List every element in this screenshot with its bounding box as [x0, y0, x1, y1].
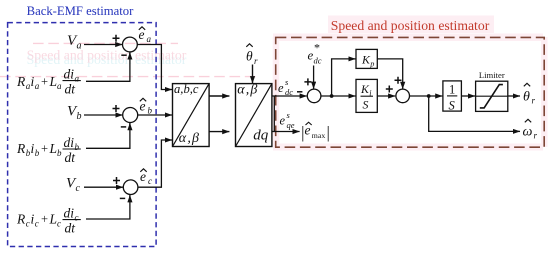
Speed and position estimator dashed box [276, 37, 545, 147]
svg-text:c: c [76, 183, 81, 194]
plus sign summer B [113, 105, 120, 112]
svg-text:dt: dt [65, 82, 77, 97]
svg-text:dq: dq [253, 128, 269, 144]
wire Vb to summer B [84, 114, 123, 116]
plus sign summer E left [386, 86, 393, 93]
OUT [410, 70, 538, 141]
svg-text:b: b [75, 142, 80, 152]
svg-text:θ: θ [246, 49, 253, 64]
PLL [272, 41, 410, 142]
Kp block [356, 49, 377, 68]
svg-text:dc: dc [314, 56, 322, 66]
svg-text:ω: ω [523, 125, 533, 140]
wire up to Kp [332, 59, 350, 96]
svg-text:r: r [532, 96, 536, 106]
svg-text:L: L [49, 74, 58, 89]
svg-text:R: R [16, 212, 26, 227]
arrow e_c into abc block [166, 139, 172, 141]
svg-text:Speed and position estimator: Speed and position estimator [27, 48, 187, 63]
svg-text:L: L [49, 141, 58, 156]
wire Kp to summer E [377, 59, 402, 84]
alpha-beta to dq transform block [236, 84, 272, 147]
wire e_dc from dq block to summer D [272, 95, 307, 97]
svg-text:dt: dt [65, 150, 77, 165]
wire Vc to summer C [84, 186, 123, 188]
svg-text:Limiter: Limiter [479, 70, 505, 80]
dq block diagonal [236, 84, 272, 147]
Kp label [361, 52, 374, 68]
pink halo right edge of red box [541, 37, 548, 147]
ghost pink dashed line lower [0, 76, 258, 78]
ghost pink dashed line upper [33, 42, 178, 44]
svg-text:a: a [147, 34, 152, 44]
Back-EMF estimator dashed box [8, 23, 157, 247]
wire summer D to Ki/S [321, 95, 356, 97]
svg-text:α,β: α,β [179, 131, 200, 146]
wire alpha component [209, 95, 229, 97]
integrator fraction bar [447, 95, 457, 97]
ROWB [16, 98, 172, 165]
svg-text:+: + [41, 141, 48, 155]
plus sign summer E top [395, 77, 402, 84]
Ki/S block [356, 79, 377, 112]
svg-text:c: c [26, 219, 30, 229]
limiter block [476, 81, 508, 111]
svg-text:di: di [64, 66, 75, 81]
svg-text:+: + [41, 212, 48, 226]
label e_b hat [140, 99, 153, 116]
BLOCKS [173, 44, 272, 147]
hat over e_a [139, 27, 145, 30]
label e_dc-star reference [308, 41, 322, 66]
label theta_r hat output [523, 90, 536, 106]
abc to alpha-beta transform block [173, 84, 210, 147]
Ki/S fraction bar [361, 95, 374, 97]
label Vc [66, 176, 81, 195]
label Rc*ic + Lc*dic/dt [16, 205, 79, 235]
arrow Kp into summer E [402, 84, 404, 89]
svg-text:θ: θ [523, 90, 530, 105]
wire integrator to limiter [461, 95, 475, 97]
summing junction E [396, 89, 410, 103]
minus sign summer C [120, 197, 125, 199]
svg-text:+: + [41, 74, 48, 88]
summing junction B [123, 108, 138, 123]
GHOSTS [0, 16, 548, 151]
svg-text:e: e [278, 81, 284, 95]
svg-text:S: S [449, 99, 456, 113]
plus sign summer D top [304, 78, 311, 85]
arrow into Kp [350, 58, 356, 60]
label Va [67, 33, 82, 52]
svg-text:r: r [534, 131, 538, 141]
svg-text:b: b [148, 106, 153, 116]
wire Va to summer A [84, 44, 122, 46]
label Rb*ib + Lb*dib/dt [16, 135, 80, 165]
integrator block 1/S [443, 81, 462, 111]
vertical tie line at dq outputs [273, 96, 275, 132]
wire e_qe to emax [272, 131, 300, 133]
feedback arrow into summer C [129, 195, 131, 200]
minus sign summer B [121, 126, 126, 128]
junction dot after summer D [330, 94, 334, 98]
label theta_r hat above dq block [246, 49, 258, 67]
svg-text:S: S [363, 97, 369, 111]
hat over omega output [525, 119, 531, 122]
label e_c hat [140, 169, 152, 186]
arrow e_a into abc block [166, 89, 172, 91]
svg-text:e: e [280, 114, 286, 128]
wire summer E to integrator [410, 95, 443, 97]
svg-text:b: b [35, 148, 40, 158]
label omega_r hat output [523, 125, 538, 141]
svg-text:a: a [77, 40, 82, 51]
feedback arrow into summer B [129, 123, 131, 128]
svg-text:c: c [57, 219, 61, 229]
label e_dc^s [278, 77, 293, 97]
feedback arrow into summer A [129, 53, 131, 59]
svg-text:a: a [57, 81, 62, 91]
svg-text:b: b [77, 111, 82, 122]
svg-text:R: R [16, 141, 26, 156]
svg-text:Speed and position estimator: Speed and position estimator [331, 18, 490, 33]
integrator label [449, 83, 456, 113]
feedback wire C [86, 195, 130, 219]
feedback wire A [86, 53, 130, 82]
summing junction C [123, 180, 138, 195]
wire limiter to theta output [508, 95, 520, 97]
svg-text:Back-EMF estimator: Back-EMF estimator [27, 4, 135, 18]
svg-text:qe: qe [287, 120, 295, 130]
svg-text:a,b,c: a,b,c [174, 82, 199, 96]
abc block diagonal [173, 84, 210, 147]
wire e_dc-star into summer D [313, 66, 315, 89]
hat over theta output [524, 83, 530, 86]
hat over e_c [140, 169, 146, 172]
svg-text:*: * [314, 41, 320, 55]
label e_qe^s [280, 110, 295, 130]
hat over theta_r [246, 44, 252, 47]
limiter axis line [476, 95, 508, 97]
wire e_c to abc block [138, 140, 166, 187]
hat over e_b [140, 98, 146, 101]
fraction bar dib/dt [63, 148, 81, 150]
summing junction D [307, 89, 321, 103]
svg-text:dc: dc [285, 87, 293, 97]
svg-text:a: a [35, 81, 40, 91]
svg-text:r: r [254, 56, 258, 66]
pink halo behind red title [328, 16, 494, 34]
arrow omega output [514, 130, 520, 132]
minus sign summer D [297, 91, 302, 93]
pink halo bottom edge of red box [273, 144, 543, 151]
svg-text:c: c [75, 212, 79, 222]
ROWC [16, 140, 172, 236]
svg-text:L: L [49, 212, 58, 227]
wire omega output [429, 96, 514, 131]
label Ra*ia + La*dia/dt [16, 66, 80, 96]
summing junction A [122, 37, 137, 52]
ROWA [16, 27, 172, 97]
junction dot omega [427, 94, 431, 98]
label |e_max| [300, 123, 330, 142]
wire Ki/S to summer E [377, 95, 395, 97]
fraction bar dic/dt [63, 219, 81, 221]
plus sign summer C [113, 177, 120, 184]
svg-text:dt: dt [65, 221, 77, 236]
label e_a hat [139, 27, 152, 44]
svg-text:c: c [148, 176, 152, 186]
fraction bar dia/dt [63, 80, 81, 82]
wire theta_r into dq block [252, 65, 254, 84]
label Vb [67, 103, 82, 122]
Ki/S label [360, 82, 372, 112]
svg-text:|: | [326, 123, 331, 142]
svg-text:max: max [312, 131, 326, 140]
svg-text:a: a [75, 73, 80, 83]
svg-text:p: p [369, 59, 374, 68]
wire beta component [209, 131, 229, 133]
feedback wire B [86, 123, 130, 148]
svg-text:1: 1 [449, 83, 455, 97]
svg-text:di: di [64, 205, 75, 220]
pink halo top edge of red box [273, 34, 543, 42]
wire e_b to abc block [138, 114, 172, 116]
hat over e_max [306, 122, 312, 125]
svg-text:di: di [64, 135, 75, 150]
limiter saturation curve [480, 85, 503, 108]
svg-text:α,β: α,β [237, 83, 258, 98]
svg-text:b: b [57, 148, 62, 158]
svg-text:c: c [35, 219, 39, 229]
svg-text:R: R [16, 74, 26, 89]
pink halo left edge of red box [273, 37, 280, 147]
minus sign summer A [121, 54, 126, 56]
plus sign summer A [113, 35, 120, 42]
wire e_a to abc block [137, 45, 166, 90]
